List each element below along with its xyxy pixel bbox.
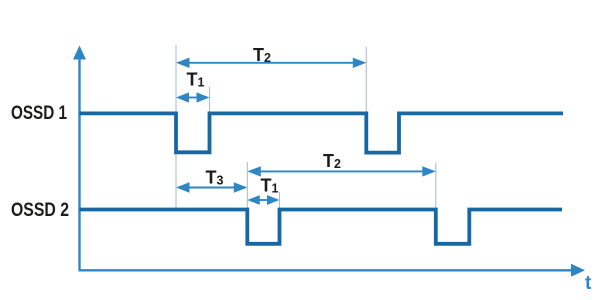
- guide line at OSSD2 pulse1 falling edge (x=247.3): [246, 162, 248, 208]
- guide line at OSSD1 pulse1 falling edge (x=176) lower part to OSSD2: [175, 152, 177, 208]
- OSSD1 waveform: [80, 113, 564, 152]
- vertical axis: [73, 46, 86, 271]
- svg-text:t: t: [585, 273, 592, 294]
- T1 arrow (OSSD2): double-headed between x=247.3 and x=279.5 at y=200: [247, 195, 279, 205]
- T2 arrow (OSSD2): double-headed between x=247.3 and x=435.8 at y=171.5: [247, 166, 435, 176]
- T1 arrow (OSSD1): double-headed between x=176 and x=209.5 at y=97.5: [176, 92, 210, 102]
- horizontal axis (time): [79, 264, 586, 277]
- svg-text:OSSD 2: OSSD 2: [11, 200, 69, 221]
- guide line at OSSD2 pulse2 falling edge (x=435.8): [435, 163, 437, 208]
- T2 arrow (OSSD1): double-headed between x=176 and x=366 at y=63: [176, 58, 366, 68]
- guide line at OSSD1 pulse1 rising edge (x=209.5): [209, 87, 211, 112]
- guide line at OSSD2 pulse1 rising edge (x=279.5): [279, 192, 281, 208]
- guide line at OSSD1 pulse1 falling edge (x=176) upper part: [175, 45, 177, 112]
- guide line at OSSD1 pulse2 falling edge (x=366): [365, 47, 367, 112]
- T3 arrow: double-headed between x=176 and x=247.3 at y=187.5: [176, 182, 247, 192]
- svg-text:OSSD 1: OSSD 1: [11, 103, 67, 124]
- OSSD2 waveform: [80, 210, 563, 244]
